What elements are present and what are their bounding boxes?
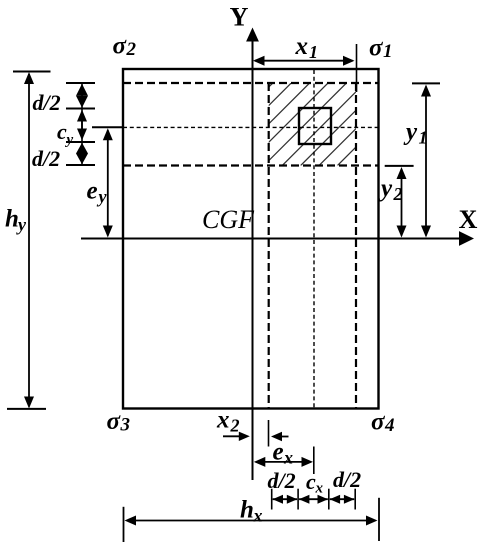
svg-text:X: X: [459, 205, 478, 234]
svg-text:1: 1: [309, 42, 318, 62]
svg-text:y: y: [403, 119, 418, 146]
svg-text:y: y: [16, 215, 27, 235]
svg-text:1: 1: [383, 41, 393, 62]
svg-text:d/2: d/2: [32, 146, 60, 171]
svg-text:3: 3: [120, 415, 131, 436]
svg-text:2: 2: [393, 184, 403, 204]
svg-text:CGF: CGF: [202, 205, 255, 234]
svg-text:2: 2: [230, 416, 240, 436]
svg-text:d/2: d/2: [268, 468, 296, 493]
svg-text:e: e: [87, 178, 98, 205]
svg-text:x: x: [253, 506, 263, 526]
svg-text:y: y: [97, 187, 108, 207]
svg-text:d/2: d/2: [33, 90, 61, 115]
svg-text:1: 1: [419, 128, 428, 148]
svg-text:e: e: [273, 439, 284, 466]
svg-text:h: h: [240, 497, 254, 524]
svg-text:c: c: [306, 469, 316, 494]
svg-text:σ: σ: [113, 33, 128, 60]
svg-text:Y: Y: [230, 3, 249, 32]
svg-text:σ: σ: [107, 408, 122, 435]
svg-text:h: h: [5, 206, 19, 233]
svg-text:y: y: [65, 132, 74, 148]
svg-text:x: x: [295, 33, 309, 60]
svg-text:d/2: d/2: [333, 467, 361, 492]
svg-text:4: 4: [384, 415, 395, 436]
svg-text:c: c: [57, 119, 67, 144]
svg-text:x: x: [216, 407, 230, 434]
svg-text:2: 2: [126, 39, 137, 60]
svg-text:σ: σ: [371, 409, 386, 436]
svg-text:x: x: [315, 481, 324, 497]
svg-text:σ: σ: [369, 35, 384, 62]
svg-text:y: y: [378, 175, 393, 202]
svg-text:x: x: [283, 448, 293, 468]
